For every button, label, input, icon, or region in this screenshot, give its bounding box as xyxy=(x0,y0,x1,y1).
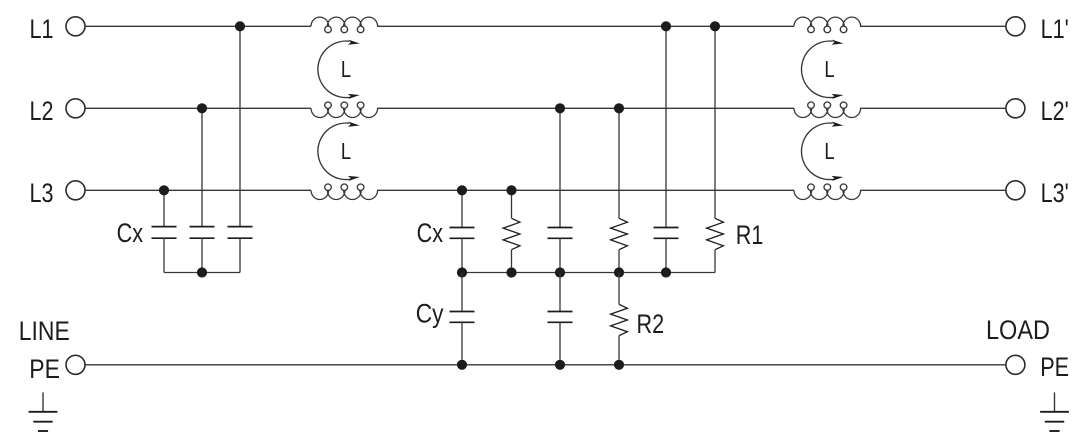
wire from L2 to damping resistor xyxy=(618,108,620,218)
wire Cx6 to bus xyxy=(665,238,667,272)
inductor L (choke 2, winding on L3) xyxy=(794,184,861,200)
coupling arrow choke 2 (L1-L2) xyxy=(801,41,834,98)
svg-text:L: L xyxy=(341,57,351,82)
svg-text:Cx: Cx xyxy=(117,219,143,249)
resistor (damping, on L3) xyxy=(503,218,520,249)
capacitor Cx4 (from L3) xyxy=(450,227,475,229)
inductor L (choke 2, winding on L1) xyxy=(794,17,861,33)
capacitor Cx6 (from L1) xyxy=(654,227,679,229)
wire middle star bus xyxy=(462,272,715,274)
svg-text:Cy: Cy xyxy=(416,299,444,329)
inductor L (choke 1, winding on L3) xyxy=(311,184,378,200)
wire L3 right segment xyxy=(860,189,1006,191)
wire left star bus xyxy=(164,272,240,274)
svg-text:PE: PE xyxy=(1040,353,1069,383)
wire Cx4 to bus xyxy=(461,238,463,272)
wire from L3 to Cx1 xyxy=(163,190,165,226)
junction dot PE/Cy1 xyxy=(457,360,467,370)
wire Cx5 to bus xyxy=(559,238,561,272)
wire from L1 to Cx3 xyxy=(239,26,241,226)
coupling arrow choke 1 (L2-L3) xyxy=(318,123,351,180)
junction dot L2/resistor xyxy=(614,103,624,113)
wire L1 left segment xyxy=(85,25,311,27)
capacitor Cx5 (from L2) xyxy=(548,227,573,229)
svg-text:L2: L2 xyxy=(30,97,54,127)
wire from L2 to Cx2 xyxy=(201,108,203,226)
wire L3 middle segment xyxy=(377,189,794,191)
wire from L1 to R1 xyxy=(714,26,716,218)
capacitor Cx2 (left bank, from L2) xyxy=(190,226,215,228)
svg-text:LINE: LINE xyxy=(19,316,70,346)
wire Cx3 to star bus xyxy=(239,238,241,272)
wire from L1 to Cx6 xyxy=(665,26,667,227)
svg-text:L3': L3' xyxy=(1041,179,1069,209)
terminal PE (line side) xyxy=(66,355,85,374)
wire R1 to bus xyxy=(714,250,716,273)
capacitor Cx3 (left bank, from L1) xyxy=(228,226,253,228)
wire PE line xyxy=(85,364,1006,366)
wire resistor to bus xyxy=(618,250,620,273)
svg-text:L1': L1' xyxy=(1041,15,1069,45)
terminal L1' (load side) xyxy=(1006,17,1025,36)
wire bus to Cy1 xyxy=(461,273,463,312)
junction dot L3/resistor xyxy=(506,185,516,195)
resistor R2 xyxy=(611,304,628,335)
terminal L2 (line side) xyxy=(66,99,85,118)
svg-text:L: L xyxy=(824,139,834,164)
svg-text:L: L xyxy=(824,57,834,82)
junction dot L2/Cx2 xyxy=(197,103,207,113)
wire L2 right segment xyxy=(860,107,1006,109)
wire resistor to bus xyxy=(511,250,513,273)
wire L1 right segment xyxy=(860,25,1006,27)
junction dot bus/Cx6 xyxy=(661,267,671,277)
ground symbol (line side) xyxy=(42,392,44,411)
coupling arrow choke 2 (L2-L3) xyxy=(801,123,834,180)
junction dot L1/R1 xyxy=(710,21,720,31)
terminal PE (load side) xyxy=(1006,355,1025,374)
junction dot bus/Cx5 xyxy=(555,267,565,277)
wire from L3 to damping resistor xyxy=(511,190,513,218)
junction dot L2/Cx5 xyxy=(555,103,565,113)
svg-text:L3: L3 xyxy=(30,179,54,209)
resistor (damping, on L2) xyxy=(611,218,628,249)
wire bus to R2 xyxy=(618,273,620,305)
wire Cy1 to PE xyxy=(461,322,463,365)
terminal L3 (line side) xyxy=(66,181,85,200)
capacitor Cy1 xyxy=(450,311,475,313)
junction dot L3/Cx4 xyxy=(457,185,467,195)
inductor L (choke 1, winding on L1) xyxy=(311,17,378,33)
junction dot L3/Cx1 xyxy=(159,185,169,195)
junction dot L1/Cx6 xyxy=(661,21,671,31)
svg-text:R2: R2 xyxy=(637,310,665,340)
coupling arrow choke 1 (L1-L2) xyxy=(318,41,351,98)
wire Cx2 to star bus xyxy=(201,238,203,272)
svg-text:L1: L1 xyxy=(30,15,54,45)
terminal L1 (line side) xyxy=(66,17,85,36)
capacitor Cx1 (left bank, from L3) xyxy=(152,226,177,228)
wire from L3 to Cx4 xyxy=(461,190,463,227)
inductor L (choke 2, winding on L2) xyxy=(794,102,861,118)
terminal L2' (load side) xyxy=(1006,99,1025,118)
capacitor Cy2 xyxy=(548,311,573,313)
junction dot bus/resistor L2 xyxy=(614,267,624,277)
wire from L2 to Cx5 xyxy=(559,108,561,227)
svg-text:PE: PE xyxy=(29,354,60,384)
inductor L (choke 1, winding on L2) xyxy=(311,102,378,118)
wire L2 left segment xyxy=(85,107,311,109)
ground symbol (load side) xyxy=(1054,392,1056,411)
junction dot L1/Cx3 xyxy=(235,21,245,31)
junction dot PE/Cy2 xyxy=(555,360,565,370)
junction dot left star point xyxy=(197,267,207,277)
wire R2 to PE xyxy=(618,336,620,365)
wire L3 left segment xyxy=(85,189,311,191)
svg-text:L2': L2' xyxy=(1041,97,1069,127)
junction dot bus/resistor L3 xyxy=(506,267,516,277)
svg-text:LOAD: LOAD xyxy=(986,316,1050,346)
svg-text:L: L xyxy=(341,139,351,164)
wire Cx1 to star bus xyxy=(163,238,165,272)
junction dot PE/R2 xyxy=(614,360,624,370)
wire bus to Cy2 xyxy=(559,273,561,312)
svg-text:Cx: Cx xyxy=(417,219,443,249)
resistor R1 (from L1) xyxy=(707,218,724,249)
svg-text:R1: R1 xyxy=(736,221,764,251)
wire L2 middle segment xyxy=(377,107,794,109)
terminal L3' (load side) xyxy=(1006,181,1025,200)
wire Cy2 to PE xyxy=(559,322,561,365)
junction dot bus/Cx4 xyxy=(457,267,467,277)
wire L1 middle segment xyxy=(377,25,794,27)
